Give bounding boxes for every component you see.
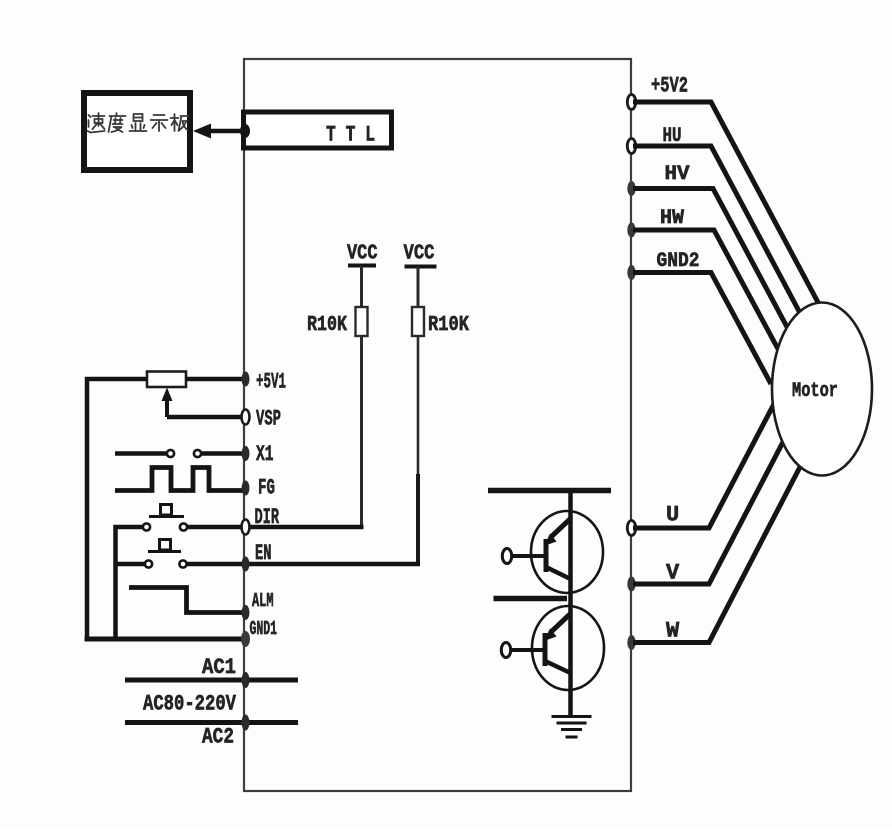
FG pulse waveform [115,468,244,491]
transistor center rail [568,491,573,717]
svg-text:HW: HW [660,207,684,230]
switch S1 contact right [180,523,187,530]
wire inner ground branch vertical [113,525,118,641]
svg-text:AC80-220V: AC80-220V [143,692,237,717]
switch X1 contact right [194,450,201,457]
wire R1 to DIR node [360,336,363,527]
pot wiper arrow [162,388,173,402]
Q1 collector [551,519,570,537]
svg-text:GND1: GND1 [250,618,278,640]
svg-text:DIR: DIR [255,505,280,530]
node on TTL output [240,124,250,138]
pin U [627,521,635,536]
pin DIR [242,520,250,535]
potentiometer RP [147,372,186,388]
wire wiper to VSP pin [167,415,245,420]
Q2 base lead [510,648,543,652]
wire +5V2 to motor [633,102,821,308]
switch X1 left wire [115,451,166,456]
wire DIR switch left [114,525,143,530]
svg-text:W: W [666,619,680,644]
wire EN switch left [114,562,145,567]
Q2 emitter [545,661,571,673]
wire pot left to ground bus [85,377,147,382]
Q1 emitter [546,567,571,579]
pin X1 [242,446,250,461]
motor M [772,303,872,476]
pin AC1 [242,672,250,688]
wire W to motor [633,465,801,643]
pin FG [242,481,250,496]
wire S1 to DIR pin [188,525,247,530]
pin +5V1 [242,372,250,387]
svg-text:ALM: ALM [252,590,274,612]
svg-text:EN: EN [255,541,272,566]
driver board outline [244,59,631,791]
svg-text:VCC: VCC [404,243,435,266]
svg-text:Motor: Motor [792,380,838,403]
transistor rail top bar [488,488,611,494]
pin V [627,577,635,592]
pin ALM [242,605,250,620]
svg-text:GND2: GND2 [657,250,700,273]
wire AC2 [125,720,298,725]
wire HU to motor [633,146,800,313]
label 速度显示板 (drawn strokes) [88,113,189,133]
Q2 collector [551,614,570,632]
arrowhead into display board [193,124,211,139]
resistor R10K (left pull-up) [356,307,368,336]
svg-text:AC2: AC2 [202,725,234,750]
switch X1 contact left [167,450,174,457]
wire U to motor [633,402,775,528]
Q1 base lead [511,554,544,558]
push button S2 (EN) cap [160,540,171,551]
svg-text:R10K: R10K [428,314,469,337]
svg-text:AC1: AC1 [202,655,236,680]
wire HW to motor [633,230,778,349]
switch S2 contact right [179,560,186,567]
pin HW [627,223,635,238]
pin AC2 [242,715,250,731]
pin VSP [242,410,250,425]
wire S2 to EN pin [187,562,246,567]
Q1 base terminal [502,549,511,564]
Q1 base bar [544,539,549,572]
push button S2 bar [148,550,181,553]
svg-text:R10K: R10K [307,314,347,337]
pin EN [242,557,250,572]
wire AC1 [125,678,298,683]
pin GND2 [627,265,635,280]
pin +5V2 [627,95,635,110]
wire HV to motor [633,189,787,328]
transistor rail middle bar [494,596,568,602]
Q2 arrow [544,629,557,642]
svg-text:VCC: VCC [347,243,378,266]
svg-text:U: U [666,503,679,528]
svg-text:HV: HV [665,163,690,186]
svg-text:+5V1: +5V1 [256,370,286,395]
Q2 base terminal [501,643,510,658]
wire ALM step [129,588,246,613]
wire DIR pull-up horizontal [245,525,364,530]
wire left ground bus vertical [85,377,90,641]
wire X1 contact to X1 pin [202,451,246,456]
svg-text:+5V2: +5V2 [651,74,688,99]
wire VCC2 to R2 [417,267,420,308]
wire VCC1 to R1 [360,266,363,308]
switch S1 contact left [143,523,150,530]
wire GND1 bus horizontal [85,637,247,642]
pin W [627,635,635,650]
Q1 arrow [544,534,557,547]
resistor R10K (right pull-up) [412,307,424,336]
svg-text:X1: X1 [256,442,274,467]
wire pot right to +5V1 pin [186,377,245,382]
svg-text:VSP: VSP [256,407,281,432]
transistor Q2 circle [532,606,604,690]
wire V to motor [633,442,783,584]
wire R2 to EN node [417,336,420,476]
push button S1 (DIR) cap [161,505,172,516]
TTL interface box U-TTL [244,112,392,148]
wire TTL to display board [205,129,244,134]
svg-text:FG: FG [258,476,275,501]
push button S1 bar [149,515,184,518]
speed display board box [84,93,190,170]
pin HV [627,181,635,196]
transistor Q1 circle [531,511,603,593]
wire EN pull-up horizontal [245,562,420,567]
ground symbol [552,715,592,718]
wire GND2 to motor [633,273,771,385]
pin GND1 [241,631,250,647]
pin HU [627,139,635,154]
switch S2 contact left [145,560,152,567]
svg-text:T T L: T T L [326,123,375,148]
Q2 base bar [543,633,548,666]
